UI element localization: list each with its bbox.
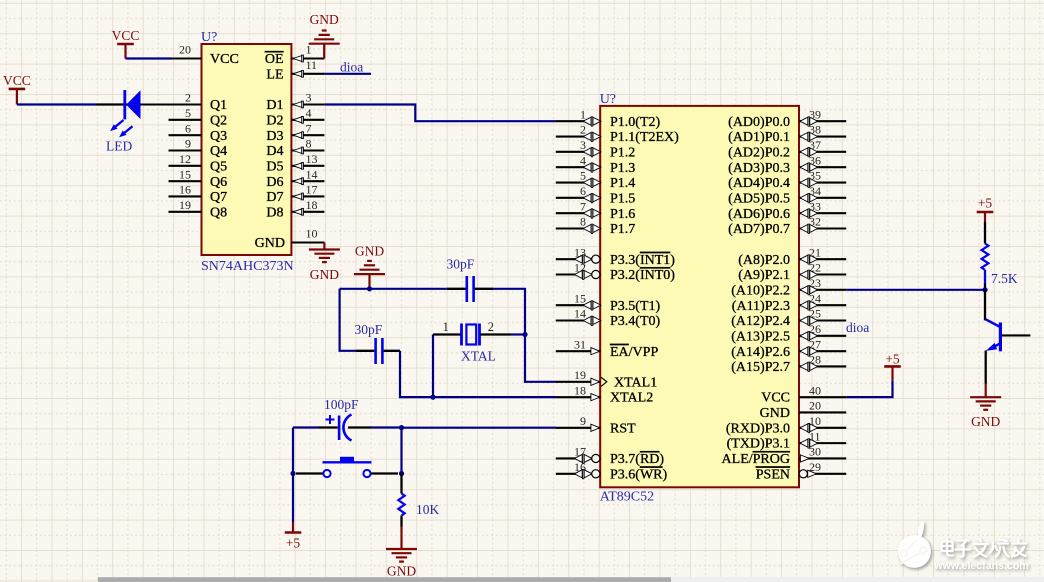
- junction oscillator GND: [367, 286, 372, 291]
- svg-text:38: 38: [809, 123, 821, 137]
- svg-text:9: 9: [185, 137, 191, 151]
- svg-text:PSEN: PSEN: [756, 467, 790, 482]
- svg-text:18: 18: [574, 383, 586, 397]
- svg-text:D2: D2: [266, 113, 283, 128]
- svg-text:D8: D8: [266, 205, 283, 220]
- svg-text:P1.5: P1.5: [610, 191, 635, 206]
- capacitor C? 30pF (bottom): [356, 338, 400, 364]
- svg-text:36: 36: [809, 153, 821, 167]
- svg-text:D4: D4: [266, 144, 283, 159]
- svg-text:6: 6: [185, 121, 191, 135]
- svg-text:29: 29: [809, 460, 821, 474]
- power GND symbol (oscillator): [368, 274, 370, 289]
- svg-text:19: 19: [574, 368, 586, 382]
- svg-text:4: 4: [306, 106, 312, 120]
- wire +5 riser to cap: [371, 426, 402, 428]
- wire crystal pin 1 drop: [432, 335, 434, 398]
- svg-text:XTAL: XTAL: [461, 349, 496, 364]
- svg-text:24: 24: [809, 291, 821, 305]
- junction switch right: [399, 471, 404, 476]
- svg-text:20: 20: [809, 399, 821, 413]
- svg-text:(AD3)P0.3: (AD3)P0.3: [728, 161, 790, 176]
- svg-text:30pF: 30pF: [355, 322, 383, 337]
- svg-text:P3.6(WR): P3.6(WR): [610, 467, 668, 482]
- LED D? diode: [110, 90, 140, 137]
- svg-text:XTAL2: XTAL2: [610, 391, 653, 406]
- svg-text:(AD7)P0.7: (AD7)P0.7: [728, 222, 790, 237]
- svg-text:5: 5: [185, 106, 191, 120]
- svg-text:28: 28: [809, 353, 821, 367]
- svg-text:(A14)P2.6: (A14)P2.6: [731, 345, 790, 360]
- svg-text:17: 17: [306, 183, 318, 197]
- svg-text:27: 27: [809, 337, 821, 351]
- wire P2.2 to transistor base node: [846, 289, 985, 291]
- U? SN74AHC373N right pin lines: [291, 59, 324, 243]
- U? AT89C52 right pin names: [722, 115, 790, 483]
- svg-text:6: 6: [580, 184, 586, 198]
- svg-text:GND: GND: [387, 564, 416, 579]
- svg-text:GND: GND: [971, 414, 1000, 429]
- U? AT89C52 left pin lines: [556, 121, 600, 474]
- svg-text:RST: RST: [610, 421, 636, 436]
- svg-text:LED: LED: [106, 139, 132, 154]
- U? SN74AHC373N pin names: [210, 52, 285, 251]
- svg-text:2: 2: [580, 123, 586, 137]
- svg-text:7: 7: [580, 199, 586, 213]
- svg-text:4: 4: [580, 153, 586, 167]
- svg-text:+5: +5: [286, 536, 301, 551]
- svg-text:40: 40: [809, 383, 821, 397]
- svg-text:14: 14: [574, 307, 586, 321]
- power +5 symbol (7.5K): [977, 211, 994, 214]
- junction crystal pin 2: [522, 332, 527, 337]
- svg-text:P3.3(INT1): P3.3(INT1): [610, 253, 675, 268]
- svg-text:Q2: Q2: [210, 113, 227, 128]
- svg-text:(AD1)P0.1: (AD1)P0.1: [728, 130, 790, 145]
- svg-text:VCC: VCC: [3, 73, 31, 88]
- svg-text:25: 25: [809, 307, 821, 321]
- svg-text:10: 10: [809, 414, 821, 428]
- svg-text:26: 26: [809, 322, 821, 336]
- svg-text:7: 7: [306, 121, 312, 135]
- svg-text:LE: LE: [266, 67, 283, 82]
- svg-text:P1.4: P1.4: [610, 176, 635, 191]
- wire crystal pin 2 to vertical: [511, 333, 526, 335]
- svg-text:34: 34: [809, 184, 821, 198]
- svg-text:30pF: 30pF: [447, 257, 475, 272]
- svg-text:35: 35: [809, 169, 821, 183]
- wire VCC to LED anode: [17, 103, 96, 105]
- capacitor C? 100pF polarized: [318, 415, 371, 441]
- svg-text:(AD0)P0.0: (AD0)P0.0: [728, 115, 790, 130]
- svg-text:P3.7(RD): P3.7(RD): [610, 452, 664, 467]
- elecfans watermark url text: [933, 560, 1028, 572]
- svg-text:dioa: dioa: [340, 59, 363, 74]
- svg-text:P1.6: P1.6: [610, 207, 635, 222]
- svg-text:P1.2: P1.2: [610, 145, 635, 160]
- svg-text:XTAL1: XTAL1: [614, 375, 657, 390]
- svg-text:Q4: Q4: [210, 144, 227, 159]
- svg-text:15: 15: [574, 291, 586, 305]
- wire node down to collector: [984, 290, 986, 321]
- scrollbar track: [98, 577, 1044, 582]
- svg-text:3: 3: [306, 91, 312, 105]
- svg-text:1: 1: [580, 107, 586, 121]
- svg-text:D6: D6: [266, 175, 283, 190]
- wire oscillator left vertical: [340, 289, 356, 351]
- svg-text:Q5: Q5: [210, 159, 227, 174]
- svg-text:13: 13: [306, 152, 318, 166]
- svg-text:12: 12: [574, 261, 586, 275]
- junction reset rail: [399, 425, 404, 430]
- svg-text:19: 19: [179, 198, 191, 212]
- power GND symbol (U? pin 1 OE): [323, 44, 325, 59]
- svg-text:+5: +5: [885, 352, 900, 367]
- svg-text:P3.2(INT0): P3.2(INT0): [610, 268, 675, 283]
- svg-text:P1.7: P1.7: [610, 222, 635, 237]
- crystal Y? XTAL: [433, 324, 511, 346]
- svg-text:17: 17: [574, 445, 586, 459]
- wire left branch vertical: [292, 428, 294, 523]
- scrollbar thumb: [98, 577, 671, 582]
- elecfans watermark logo: [898, 520, 931, 568]
- svg-text:(AD2)P0.2: (AD2)P0.2: [728, 145, 790, 160]
- wire bottom cap to XTAL2 rail: [400, 351, 556, 397]
- svg-text:15: 15: [179, 167, 191, 181]
- wire LED pins to U? pin 2: [96, 103, 141, 105]
- svg-text:(A12)P2.4: (A12)P2.4: [731, 314, 790, 329]
- svg-text:12: 12: [179, 152, 191, 166]
- svg-text:P1.3: P1.3: [610, 161, 635, 176]
- junction transistor node: [982, 287, 987, 292]
- svg-text:30: 30: [809, 445, 821, 459]
- svg-text:P3.4(T0): P3.4(T0): [610, 314, 661, 329]
- svg-text:ALE/PROG: ALE/PROG: [722, 452, 790, 467]
- svg-text:13: 13: [574, 245, 586, 259]
- wire reset vertical to switch: [400, 428, 402, 474]
- power +5 symbol (reset): [285, 531, 302, 534]
- svg-text:D5: D5: [266, 159, 283, 174]
- svg-text:11: 11: [306, 58, 318, 72]
- U? AT89C52 left pin decorations: [574, 117, 606, 479]
- svg-text:22: 22: [809, 261, 821, 275]
- U? SN74AHC373N left pin numbers: [179, 43, 191, 213]
- wire oscillator top rail: [340, 288, 447, 290]
- svg-text:7.5K: 7.5K: [991, 271, 1018, 286]
- wire emitter to GND: [985, 351, 987, 384]
- svg-text:Q7: Q7: [210, 190, 227, 205]
- svg-text:(AD4)P0.4: (AD4)P0.4: [728, 176, 790, 191]
- svg-text:8: 8: [580, 215, 586, 229]
- svg-text:14: 14: [306, 167, 318, 181]
- svg-text:16: 16: [179, 183, 191, 197]
- svg-text:Q1: Q1: [210, 98, 227, 113]
- junction switch left: [290, 471, 295, 476]
- svg-text:10K: 10K: [416, 502, 440, 517]
- transistor Q? NPN: [986, 319, 1031, 351]
- latch U? SN74AHC373N body: [202, 44, 292, 255]
- svg-text:37: 37: [809, 138, 821, 152]
- svg-text:GND: GND: [310, 12, 339, 27]
- svg-text:18: 18: [306, 198, 318, 212]
- svg-text:(A13)P2.5: (A13)P2.5: [731, 329, 790, 344]
- svg-text:VCC: VCC: [761, 391, 790, 406]
- svg-text:10: 10: [306, 227, 318, 241]
- svg-text:P1.1(T2EX): P1.1(T2EX): [610, 130, 679, 145]
- svg-text:GND: GND: [760, 406, 790, 421]
- power VCC symbol (LED branch): [9, 88, 26, 91]
- svg-text:9: 9: [580, 414, 586, 428]
- svg-text:5: 5: [580, 169, 586, 183]
- svg-text:100pF: 100pF: [324, 397, 359, 412]
- svg-text:(A8)P2.0: (A8)P2.0: [738, 253, 790, 268]
- svg-text:(A15)P2.7: (A15)P2.7: [731, 360, 790, 375]
- svg-text:16: 16: [574, 460, 586, 474]
- svg-text:1: 1: [443, 320, 449, 334]
- junction XTAL2 rail / crystal pin 1: [430, 395, 435, 400]
- wire D1 to P1.0: [324, 105, 556, 122]
- U? AT89C52 right pin numbers: [809, 107, 821, 474]
- svg-text:GND: GND: [255, 236, 285, 251]
- svg-text:AT89C52: AT89C52: [600, 490, 654, 505]
- svg-text:P3.5(T1): P3.5(T1): [610, 299, 661, 314]
- svg-text:(A10)P2.2: (A10)P2.2: [731, 283, 790, 298]
- svg-text:VCC: VCC: [112, 28, 140, 43]
- svg-text:3: 3: [580, 138, 586, 152]
- power GND symbol (transistor): [985, 384, 987, 398]
- svg-text:8: 8: [306, 137, 312, 151]
- wire VCC to U? pin 20: [126, 57, 172, 59]
- power VCC symbol (U? pin 20): [117, 43, 134, 46]
- U? SN74AHC373N right pin arrows: [293, 55, 303, 215]
- svg-text:U?: U?: [600, 92, 616, 107]
- svg-text:33: 33: [809, 199, 821, 213]
- wire U? pin 11 LE to dioa stub: [324, 73, 371, 75]
- wire top cap to XTAL1 vertical: [493, 289, 556, 382]
- power +5 symbol (VCC pin 40): [884, 365, 901, 368]
- svg-text:21: 21: [809, 245, 821, 259]
- U? SN74AHC373N right pin numbers: [306, 43, 318, 241]
- wire reset rail to RST pin 9: [402, 427, 557, 429]
- svg-text:2: 2: [185, 91, 191, 105]
- svg-text:20: 20: [179, 43, 191, 57]
- svg-text:Q3: Q3: [210, 129, 227, 144]
- svg-text:2: 2: [488, 320, 494, 334]
- U? SN74AHC373N left pin lines: [126, 59, 202, 212]
- svg-text:Q6: Q6: [210, 175, 227, 190]
- U? AT89C52 right pin lines: [799, 121, 846, 474]
- resistor R? 10K: [398, 474, 404, 527]
- svg-text:+5: +5: [978, 196, 993, 211]
- svg-text:(AD6)P0.6: (AD6)P0.6: [728, 207, 790, 222]
- svg-text:D1: D1: [266, 98, 283, 113]
- svg-text:(A9)P2.1: (A9)P2.1: [738, 268, 790, 283]
- svg-text:(TXD)P3.1: (TXD)P3.1: [727, 437, 790, 452]
- svg-text:39: 39: [809, 107, 821, 121]
- svg-text:D3: D3: [266, 129, 283, 144]
- elecfans watermark chinese text: [942, 539, 1027, 557]
- svg-text:EA/VPP: EA/VPP: [610, 345, 658, 360]
- U? AT89C52 right pin decorations: [799, 117, 817, 478]
- svg-text:Q8: Q8: [210, 205, 227, 220]
- svg-text:(RXD)P3.0: (RXD)P3.0: [726, 421, 790, 436]
- power GND symbol (U? pin 10): [323, 243, 325, 250]
- svg-text:(A11)P2.3: (A11)P2.3: [732, 299, 790, 314]
- mcu U? AT89C52 body: [600, 106, 799, 487]
- svg-text:SN74AHC373N: SN74AHC373N: [201, 259, 294, 274]
- resistor R? 7.5K: [982, 222, 989, 290]
- U? AT89C52 left pin numbers: [574, 107, 586, 474]
- svg-text:(AD5)P0.5: (AD5)P0.5: [728, 191, 790, 206]
- svg-text:U?: U?: [201, 30, 217, 45]
- svg-text:23: 23: [809, 276, 821, 290]
- svg-text:GND: GND: [310, 267, 339, 282]
- power GND symbol (10K): [400, 527, 402, 550]
- svg-text:32: 32: [809, 215, 821, 229]
- svg-text:VCC: VCC: [210, 52, 239, 67]
- svg-text:www.elecfans.com: www.elecfans.com: [933, 560, 1028, 572]
- wire +5 to VCC pin 40: [846, 380, 892, 397]
- svg-text:OE: OE: [265, 52, 284, 67]
- U? AT89C52 left pin names: [610, 115, 679, 483]
- capacitor C? 30pF (top): [447, 276, 493, 302]
- svg-text:GND: GND: [355, 244, 384, 259]
- svg-text:P1.0(T2): P1.0(T2): [610, 115, 661, 130]
- svg-text:dioa: dioa: [846, 320, 869, 335]
- svg-text:11: 11: [809, 429, 821, 443]
- svg-text:D7: D7: [266, 190, 283, 205]
- switch S? pushbutton: [296, 457, 398, 477]
- svg-text:31: 31: [574, 337, 586, 351]
